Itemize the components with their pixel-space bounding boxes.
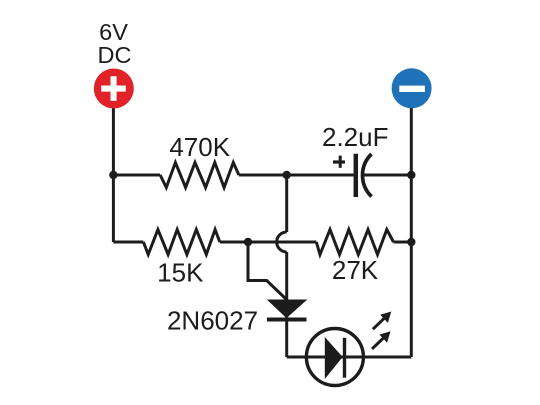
svg-text:15K: 15K [157,258,204,288]
junction node capacitor / right rail [407,171,415,179]
junction node 27K / right rail [407,238,415,246]
battery positive terminal [94,69,134,109]
PUT 2N6027 triangle [268,300,306,318]
capacitor polarity plus sign [333,156,345,168]
wire LED row left [287,356,335,359]
battery negative terminal [392,68,432,108]
resistor 27K [316,230,393,255]
PUT 2N6027 cathode bar [267,318,307,322]
resistor 470K [160,163,239,188]
capacitor C1 2.2uF curved plate [363,154,372,197]
junction node 15K / gate [244,238,252,246]
wire right rail [410,108,413,358]
LED D1 cathode bar [343,338,346,378]
svg-text:27K: 27K [332,255,379,285]
svg-text:DC: DC [98,42,132,68]
wire LED row right [335,356,411,359]
svg-text:470K: 470K [169,132,230,162]
LED light arrow 1 [373,312,391,330]
wire 15K to 27K [220,241,316,244]
LED D1 circle [306,329,363,386]
LED D1 triangle [325,338,342,377]
wire 27K to right rail [394,241,412,244]
wire left rail [112,108,115,243]
resistor 15K [143,230,219,255]
svg-text:2.2uF: 2.2uF [322,122,389,152]
junction node left rail / 470K [109,171,117,179]
wire vertical branch from 470K junction [285,175,288,232]
svg-text:2N6027: 2N6027 [167,306,258,336]
wire 15K row left [113,241,143,244]
wire capacitor to right rail [364,174,411,177]
wire branch down to PUT and LED row [285,252,288,357]
junction node 470K / vertical branch [283,171,291,179]
wire 470K row left [113,174,160,177]
wire hop over 15K-27K row [277,232,287,252]
LED light arrow 2 [372,331,391,349]
capacitor C1 2.2uF left plate [354,154,359,197]
wire 470K to capacitor [239,174,354,177]
wire PUT gate [248,242,286,299]
